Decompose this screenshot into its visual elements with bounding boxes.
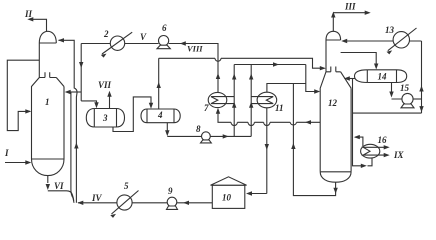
wire column 12 side to drum 14 bbox=[341, 53, 377, 65]
wire left bracket recycle bbox=[7, 60, 39, 130]
svg-text:2: 2 bbox=[103, 29, 109, 39]
wire drum3 to drum4 transfer bbox=[113, 97, 151, 132]
arrow into tank 10 bbox=[246, 191, 252, 195]
wire y=122.3 line from column 12 to exchanger 7 bbox=[218, 110, 320, 126]
wire riser reflux x=74 bbox=[59, 40, 78, 203]
arrow reflux into dome bbox=[58, 38, 64, 42]
svg-text:10: 10 bbox=[222, 193, 232, 203]
wire drum 14 right outlet to pump 15 bbox=[392, 83, 403, 100]
wire from exch 11 to tank 10 bbox=[248, 108, 267, 194]
arrow up on reflux riser bbox=[74, 143, 78, 149]
wire drum 14 left line into column 12 bbox=[346, 78, 356, 80]
svg-text:15: 15 bbox=[400, 83, 410, 93]
arrow VIII left on V line bbox=[180, 41, 186, 45]
arrow into pump 9 bbox=[183, 201, 189, 205]
svg-text:9: 9 bbox=[168, 186, 173, 196]
column 1 bottoms outlet bbox=[47, 176, 49, 183]
pump 9 bbox=[167, 197, 178, 209]
arrow II left bbox=[27, 17, 33, 21]
wire VI horizontal bbox=[48, 191, 74, 201]
pump 6 bbox=[157, 36, 170, 49]
svg-text:7: 7 bbox=[204, 103, 209, 113]
arrow up into VIII line from exchanger 7 bbox=[216, 73, 220, 79]
svg-text:IV: IV bbox=[91, 193, 103, 203]
wire exchanger 16 top loop bbox=[355, 137, 363, 146]
wire V line bbox=[81, 44, 218, 93]
drum 14 bbox=[355, 70, 407, 83]
drum 4 bbox=[141, 109, 180, 123]
svg-text:I: I bbox=[4, 148, 9, 158]
tank 10 bbox=[211, 177, 247, 209]
wire column 12 bottoms riser bbox=[293, 84, 335, 196]
svg-text:4: 4 bbox=[157, 110, 163, 120]
svg-text:14: 14 bbox=[378, 72, 388, 82]
column 1 bbox=[32, 31, 65, 175]
wire vertical A x=234.2 bbox=[233, 65, 235, 137]
wire branch to drum 3 bbox=[81, 101, 96, 103]
svg-text:II: II bbox=[24, 9, 33, 19]
svg-text:16: 16 bbox=[378, 135, 388, 145]
wire drum4 riser to column 12 feed bbox=[159, 58, 325, 109]
cooler 2 bbox=[101, 32, 132, 57]
svg-text:VII: VII bbox=[98, 80, 112, 90]
wire downcomer x=81.2 from V line bbox=[80, 44, 82, 101]
svg-text:8: 8 bbox=[196, 124, 201, 134]
svg-text:11: 11 bbox=[275, 103, 284, 113]
svg-text:13: 13 bbox=[385, 25, 395, 35]
arrow down on downcomer bbox=[79, 62, 83, 68]
wire exchanger 11 top bridge bbox=[267, 84, 306, 93]
stream I bbox=[5, 162, 30, 164]
wire y=64.5 header to column 12 bbox=[234, 65, 318, 92]
wire vertical drop to bottoms junction bbox=[71, 92, 74, 203]
cooler 13 bbox=[387, 28, 417, 54]
stream IV bottom line bbox=[78, 202, 212, 204]
svg-text:VI: VI bbox=[54, 181, 64, 191]
svg-text:3: 3 bbox=[102, 113, 108, 123]
svg-text:V: V bbox=[140, 32, 147, 42]
column 12 bbox=[320, 31, 351, 182]
wire pump 15 discharge bbox=[413, 98, 421, 100]
stream III bbox=[333, 13, 369, 32]
svg-text:VIII: VIII bbox=[187, 44, 203, 54]
cooler 5 bbox=[110, 191, 138, 218]
heat exchanger 7 bbox=[208, 92, 234, 107]
wire condenser reflux line into dome 12 bbox=[343, 40, 422, 42]
pump 15 bbox=[401, 93, 414, 107]
drum 3 bbox=[86, 109, 124, 128]
svg-text:1: 1 bbox=[45, 97, 50, 107]
arrow into column 1 left bbox=[25, 109, 31, 113]
wire column 12 side draw to exchanger 16 bbox=[353, 79, 373, 166]
stream IX outputs bbox=[384, 145, 390, 149]
stream VII bbox=[109, 96, 111, 109]
pump 8 bbox=[201, 132, 212, 143]
wire right loop x=421.5 bbox=[421, 41, 423, 113]
stream II line bbox=[29, 19, 47, 31]
svg-text:5: 5 bbox=[124, 181, 129, 191]
svg-text:12: 12 bbox=[328, 98, 338, 108]
heat exchanger 16 bbox=[361, 144, 388, 158]
svg-text:IX: IX bbox=[393, 150, 405, 160]
wire vertical B x=251.2 pump8 riser bbox=[250, 65, 252, 137]
wire branch into column 1 at y=92 bbox=[66, 91, 81, 93]
heat exchanger 11 bbox=[251, 92, 277, 108]
svg-text:III: III bbox=[344, 2, 356, 12]
wire bottom loop y=113 bbox=[353, 112, 422, 114]
wire pump 8 circuit bbox=[167, 123, 251, 137]
svg-text:6: 6 bbox=[162, 23, 167, 33]
